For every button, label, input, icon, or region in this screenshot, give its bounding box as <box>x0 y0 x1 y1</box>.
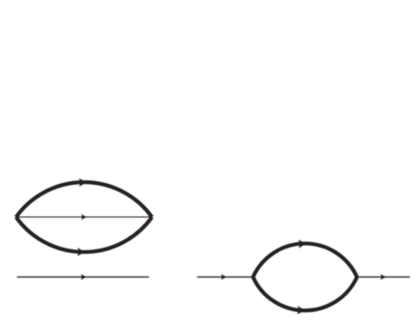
arrow on right bubble top arc <box>298 239 306 248</box>
left sunset diagram: bottom propagator arc <box>16 217 152 252</box>
arrow on left top arc <box>79 178 86 187</box>
right bubble diagram: bottom arc <box>253 277 357 311</box>
arrow on right bubble bottom arc <box>297 306 305 315</box>
arrow on lower free propagator <box>81 274 87 280</box>
arrow on middle propagator <box>81 214 87 220</box>
left sunset diagram: middle straight propagator <box>16 216 152 218</box>
lower free propagator line <box>17 276 149 278</box>
right diagram: right external leg <box>357 276 410 278</box>
arrow on left bottom arc <box>77 248 85 257</box>
right bubble diagram: top arc <box>253 243 357 277</box>
arrow on right external leg <box>380 274 386 280</box>
right diagram: left external leg <box>197 276 253 278</box>
arrow on left external leg <box>221 274 227 280</box>
left sunset diagram: top propagator arc <box>16 182 152 217</box>
